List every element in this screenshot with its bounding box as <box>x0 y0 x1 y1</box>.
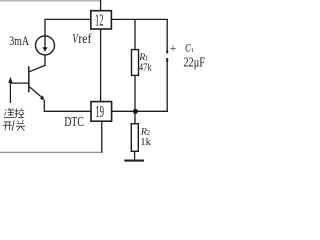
resistor R2 body <box>131 124 138 152</box>
关 <box>18 120 19 122</box>
resistor R1 body <box>132 50 139 76</box>
svg-text:1: 1 <box>191 47 194 54</box>
svg-text:1k: 1k <box>140 137 151 148</box>
wire top rail from pin 12 to C1 <box>111 18 168 20</box>
wire pin column below pin 19 <box>101 121 103 153</box>
label 遥控 (hand-drawn) <box>4 108 24 117</box>
wire R1 top lead <box>134 19 136 49</box>
label 开/关 (hand-drawn) <box>3 120 25 131</box>
svg-text:3mA: 3mA <box>9 33 29 48</box>
signal arrow remote on/off <box>9 82 11 104</box>
wire R2 top lead <box>134 111 136 123</box>
svg-text:DTC: DTC <box>64 115 83 130</box>
current source I1 circle <box>36 36 55 55</box>
wire pin 19 right to node <box>111 110 168 112</box>
transistor Q1 emitter with arrow <box>29 87 42 99</box>
wire pin column between pin 12 and pin 19 <box>100 29 102 102</box>
遥 <box>5 110 6 111</box>
transistor Q1 base bar <box>28 66 30 92</box>
svg-text:+: + <box>170 43 177 55</box>
svg-text:2: 2 <box>147 130 151 137</box>
svg-text:19: 19 <box>95 102 104 121</box>
wire R1 bottom lead <box>134 75 136 111</box>
控 <box>15 109 16 118</box>
wire emitter to DTC pin 19 <box>44 100 91 111</box>
transistor Q1 base lead <box>10 82 28 84</box>
node junction dot <box>133 109 138 114</box>
capacitor C1 top lead <box>166 19 168 50</box>
capacitor C1 bottom lead <box>166 62 168 113</box>
IC pin column wire above pin 12 <box>100 0 102 11</box>
svg-text:12: 12 <box>95 11 103 30</box>
pin box 12 <box>91 11 112 30</box>
capacitor C1 top plate <box>166 50 168 53</box>
svg-text:47k: 47k <box>139 63 152 74</box>
pin box 19 <box>91 102 112 122</box>
wire collector from current source <box>29 55 45 72</box>
ground <box>124 160 144 162</box>
/ <box>12 120 14 131</box>
开 <box>4 121 12 123</box>
IC outline bottom border <box>0 151 102 153</box>
svg-text:ref: ref <box>78 32 91 47</box>
capacitor C1 bottom plate <box>166 58 168 62</box>
current source arrow <box>44 36 46 48</box>
IC outline top border <box>0 0 101 2</box>
svg-text:1: 1 <box>145 55 148 62</box>
wire Vref from pin 12 left to current source <box>45 19 91 36</box>
wire R2 bottom lead <box>134 151 136 160</box>
svg-text:22μF: 22μF <box>183 56 205 71</box>
